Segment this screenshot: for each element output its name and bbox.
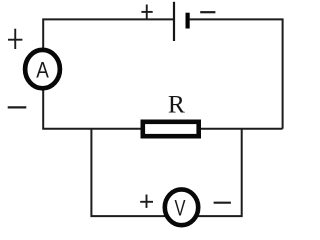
ammeter A1 circle [25,50,60,88]
wire voltmeter branch [91,129,241,216]
battery negative plate (short thick bar) [186,13,190,29]
battery - label [200,11,215,13]
battery positive plate (long line) [173,2,175,41]
voltmeter - label [214,202,231,204]
svg-text:A: A [36,58,49,83]
svg-text:R: R [168,90,185,119]
wire top-right and right vertical [190,19,283,128]
voltmeter + label [140,195,153,208]
ammeter - label [8,106,27,108]
ammeter + label [8,29,22,49]
battery + label [141,5,152,20]
svg-text:V: V [175,195,186,220]
voltmeter V1 circle [165,189,198,225]
resistor R1 body [143,122,199,136]
wire main loop (top, left, middle horizontal) [43,19,282,128]
